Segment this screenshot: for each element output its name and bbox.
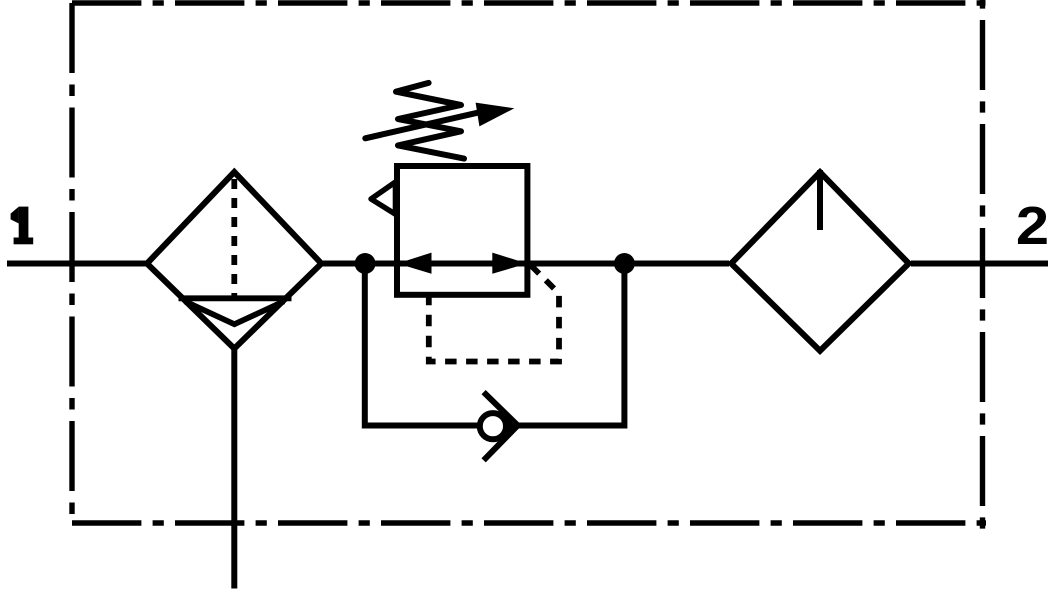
enclosure dash-dot border right — [980, 0, 985, 529]
regulator body box — [397, 166, 527, 295]
check valve ball circle — [480, 413, 506, 439]
check valve seat wedge fill — [501, 409, 518, 442]
filter sump separator chord — [179, 295, 292, 301]
filter F1 body (diamond) — [147, 172, 321, 349]
bypass left branch wire — [365, 262, 479, 426]
wire regulator to lubricator — [526, 261, 729, 267]
lubricator drip line — [817, 170, 823, 230]
wire port 1 to filter — [7, 261, 146, 267]
svg-text:2: 2 — [1016, 196, 1049, 256]
regulator left arrowhead — [398, 253, 432, 274]
regulator right arrowhead — [492, 253, 527, 274]
wire filter to regulator — [323, 261, 399, 267]
regulator R1 spring — [396, 83, 464, 159]
filter water separator V — [185, 301, 284, 324]
filter drain line — [231, 348, 237, 589]
filter element dashed centre line — [231, 179, 237, 297]
check valve V1 seat — [484, 392, 518, 460]
regulator flow path line — [399, 261, 526, 267]
node downstream junction dot — [614, 253, 635, 274]
regulator pilot dashed line — [429, 266, 559, 362]
regulator relief vent triangle — [371, 182, 395, 214]
regulator adjustment arrow shaft — [365, 111, 486, 139]
lubricator L1 body (diamond) — [731, 172, 909, 351]
enclosure dash-dot border left — [69, 3, 74, 523]
regulator adjustment arrowhead — [476, 103, 515, 127]
enclosure dash-dot border top — [72, 0, 986, 5]
enclosure dash-dot border bottom — [72, 520, 986, 525]
port 1 label — [11, 207, 34, 245]
node upstream junction dot — [355, 253, 376, 274]
wire lubricator to port 2 — [911, 261, 1048, 267]
bypass right branch wire — [516, 262, 624, 426]
